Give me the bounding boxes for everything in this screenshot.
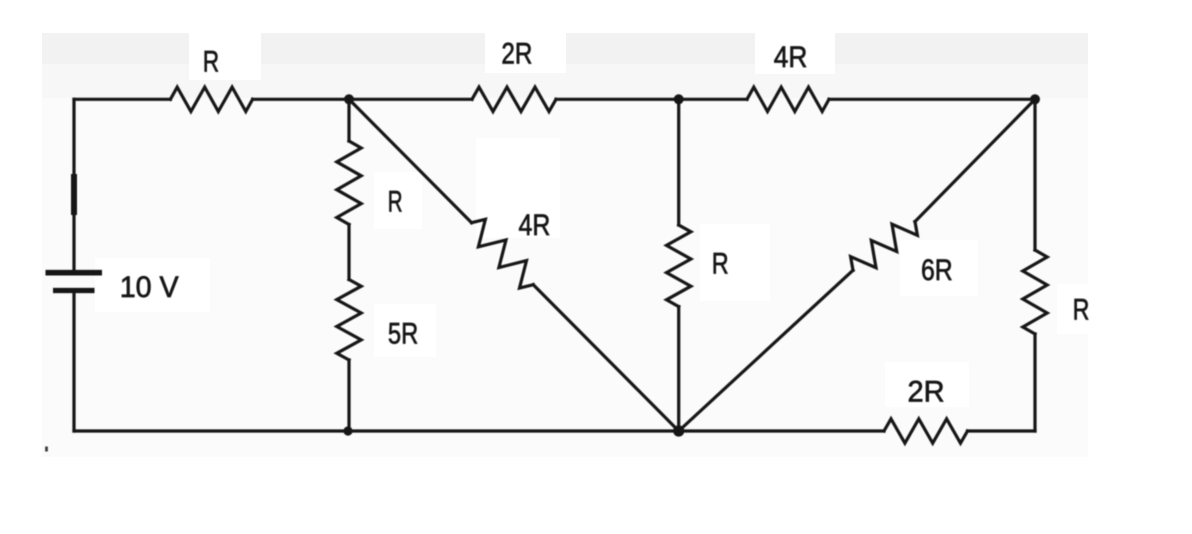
svg-text:6R: 6R (921, 254, 953, 287)
svg-text:4R: 4R (774, 41, 808, 74)
svg-text:R: R (712, 248, 729, 281)
svg-text:10 V: 10 V (120, 271, 179, 304)
svg-text:5R: 5R (388, 318, 418, 351)
svg-text:R: R (203, 46, 219, 79)
svg-text:2R: 2R (501, 38, 532, 71)
svg-text:2R: 2R (908, 376, 945, 409)
svg-text:R: R (1073, 293, 1090, 326)
svg-text:R: R (388, 185, 403, 218)
svg-text:4R: 4R (519, 209, 551, 242)
